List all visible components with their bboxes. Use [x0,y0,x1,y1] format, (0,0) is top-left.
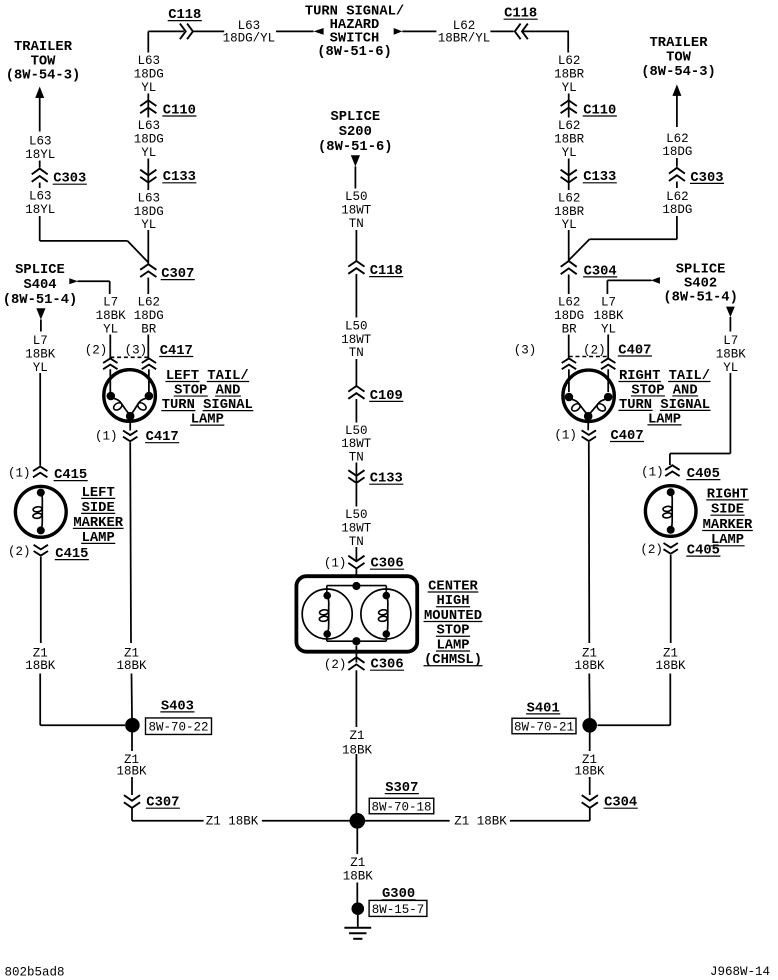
svg-text:L63: L63 [29,135,52,149]
svg-text:(3): (3) [125,343,148,357]
svg-text:18DG: 18DG [134,68,164,82]
svg-text:YL: YL [723,361,738,375]
svg-text:(8W-51-6): (8W-51-6) [317,44,392,60]
svg-text:18WT: 18WT [341,437,372,451]
svg-text:SPLICE: SPLICE [676,263,726,278]
svg-text:18BK: 18BK [25,348,56,362]
svg-text:L62: L62 [558,192,581,206]
svg-text:18BK: 18BK [343,870,374,884]
svg-text:18DG: 18DG [134,309,164,323]
svg-text:L62: L62 [558,296,581,310]
svg-text:18YL: 18YL [25,203,55,217]
svg-text:(2): (2) [583,343,606,357]
svg-text:TRAILER: TRAILER [14,40,73,55]
svg-text:TN: TN [349,346,364,360]
svg-text:8W-70-22: 8W-70-22 [148,721,208,735]
svg-text:18BK: 18BK [25,659,56,673]
svg-text:YL: YL [33,361,48,375]
svg-text:YL: YL [141,81,156,95]
svg-text:L50: L50 [345,424,368,438]
svg-text:8W-70-21: 8W-70-21 [514,720,574,734]
svg-text:18BK: 18BK [574,659,605,673]
svg-text:(1): (1) [324,557,347,571]
svg-text:18BK: 18BK [116,765,147,779]
svg-text:(3): (3) [514,343,537,357]
svg-text:18BK: 18BK [593,309,624,323]
svg-text:18DG: 18DG [662,203,692,217]
svg-text:18BK: 18BK [574,765,605,779]
svg-text:8W-70-18: 8W-70-18 [371,800,431,814]
svg-text:L62: L62 [558,119,581,133]
svg-text:(8W-51-4): (8W-51-4) [663,289,738,305]
svg-text:Z1 18BK: Z1 18BK [206,814,259,828]
svg-text:L7: L7 [103,296,118,310]
svg-text:L62: L62 [558,54,581,68]
svg-text:L7: L7 [723,334,738,348]
svg-text:18DG: 18DG [662,145,692,159]
svg-text:(1): (1) [641,465,664,479]
svg-text:YL: YL [141,146,156,160]
svg-text:18DG: 18DG [554,309,584,323]
svg-text:TOW: TOW [31,54,57,69]
svg-text:Z1: Z1 [350,856,365,870]
svg-text:18BR/YL: 18BR/YL [438,32,491,46]
svg-text:YL: YL [103,322,118,336]
svg-text:(2): (2) [8,545,31,559]
svg-text:(1): (1) [95,430,118,444]
svg-text:L62: L62 [137,296,160,310]
svg-text:802b5ad8: 802b5ad8 [5,966,65,980]
svg-text:L63: L63 [137,54,160,68]
svg-text:(8W-54-3): (8W-54-3) [6,68,81,84]
svg-text:L50: L50 [345,190,368,204]
svg-text:TN: TN [349,450,364,464]
svg-text:L7: L7 [601,296,616,310]
svg-text:18BR: 18BR [554,133,585,147]
svg-text:SPLICE: SPLICE [330,110,380,125]
svg-text:S402: S402 [684,276,717,291]
svg-text:18BK: 18BK [716,348,747,362]
svg-text:18WT: 18WT [341,333,372,347]
svg-text:L7: L7 [33,334,48,348]
svg-text:J968W-14: J968W-14 [710,965,770,979]
svg-text:TN: TN [349,217,364,231]
svg-text:18BR: 18BR [554,68,585,82]
svg-text:L63: L63 [29,190,52,204]
svg-text:(2): (2) [640,543,663,557]
svg-text:YL: YL [562,81,577,95]
svg-text:(1): (1) [554,429,577,443]
svg-text:L50: L50 [345,508,368,522]
svg-text:YL: YL [562,146,577,160]
svg-text:BR: BR [141,322,157,336]
svg-text:S404: S404 [23,278,56,293]
svg-text:S200: S200 [339,125,372,140]
svg-text:(2): (2) [85,343,108,357]
svg-text:TN: TN [349,535,364,549]
svg-text:18DG: 18DG [134,133,164,147]
svg-text:18YL: 18YL [25,148,55,162]
svg-text:(8W-51-4): (8W-51-4) [3,292,78,308]
svg-text:TOW: TOW [666,51,692,66]
svg-text:18WT: 18WT [341,204,372,218]
svg-text:(8W-54-3): (8W-54-3) [641,64,716,80]
svg-text:L63: L63 [137,192,160,206]
svg-text:18DG/YL: 18DG/YL [223,32,276,46]
svg-text:SPLICE: SPLICE [15,263,65,278]
svg-text:YL: YL [601,322,616,336]
svg-text:L50: L50 [345,320,368,334]
svg-text:Z1 18BK: Z1 18BK [454,814,507,828]
svg-text:Z1: Z1 [349,729,364,743]
svg-text:(2): (2) [324,658,347,672]
svg-text:18BR: 18BR [554,205,585,219]
svg-text:18BK: 18BK [116,659,147,673]
svg-text:BR: BR [562,322,578,336]
svg-text:L62: L62 [666,190,689,204]
svg-text:18BK: 18BK [655,659,686,673]
svg-text:8W-15-7: 8W-15-7 [372,903,425,917]
svg-text:TRAILER: TRAILER [650,36,709,51]
svg-text:L62: L62 [666,132,689,146]
svg-text:18WT: 18WT [341,522,372,536]
svg-text:(8W-51-6): (8W-51-6) [318,139,393,155]
svg-text:(1): (1) [8,466,31,480]
svg-text:L63: L63 [137,119,160,133]
svg-text:18BK: 18BK [96,309,127,323]
svg-text:18DG: 18DG [134,205,164,219]
